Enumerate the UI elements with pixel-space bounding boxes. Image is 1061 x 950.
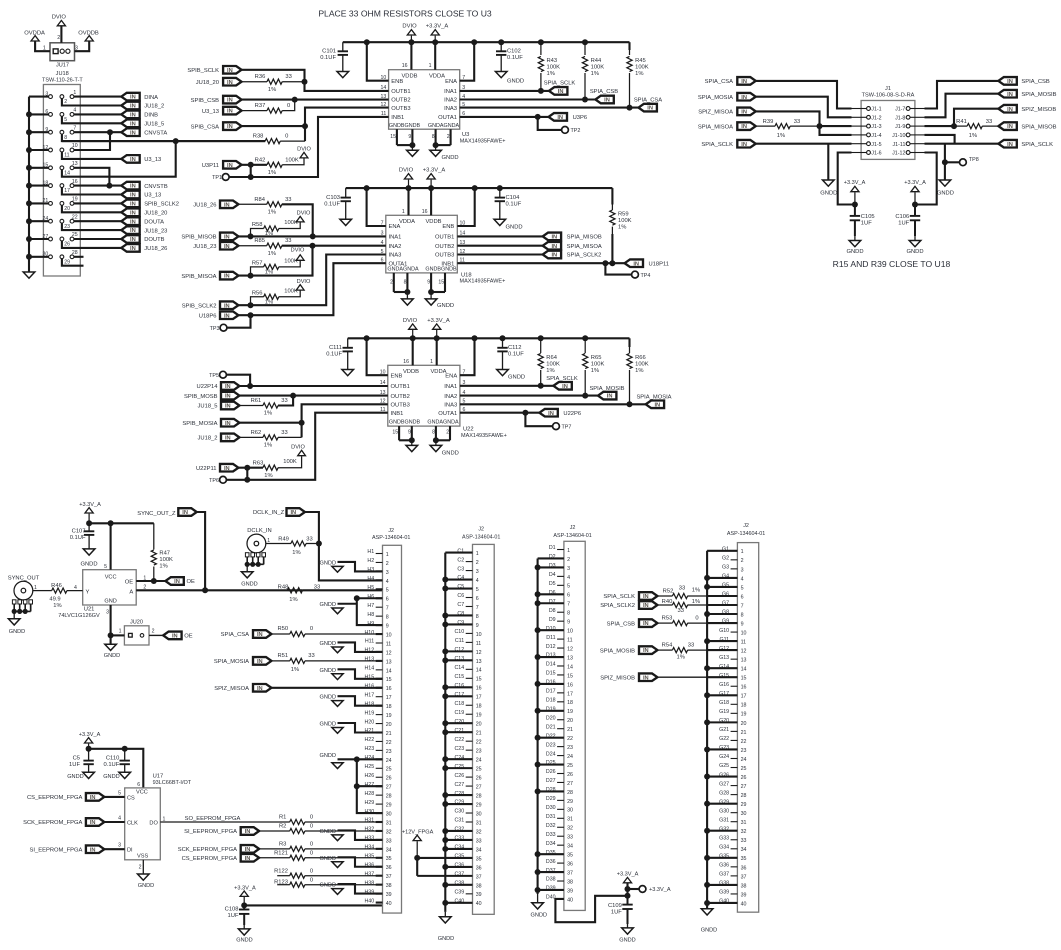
wire DI to U17 [104,843,124,850]
svg-text:2: 2 [741,558,744,564]
svg-text:G36: G36 [719,863,729,869]
svg-text:31: 31 [741,820,747,826]
svg-text:D17: D17 [546,689,556,695]
wire TP5 to U22P14 net [226,375,250,386]
svg-text:18: 18 [386,704,392,710]
power +3.3V_A above U18 [423,168,446,189]
svg-text:37: 37 [567,870,573,876]
svg-text:ASP-134604-01: ASP-134604-01 [372,535,410,541]
svg-text:0: 0 [310,626,313,632]
svg-text:IN: IN [741,142,747,148]
J2 H-column pin H25 [364,764,391,773]
J2 H-column pin H5 [367,585,388,594]
svg-text:DINB: DINB [144,113,158,119]
svg-text:0: 0 [310,815,313,821]
svg-text:10: 10 [72,143,78,149]
svg-text:DVIO: DVIO [291,248,305,254]
svg-text:INB1: INB1 [391,115,404,121]
resistor R40 33 [657,599,737,614]
svg-text:6: 6 [386,597,389,603]
svg-text:7: 7 [386,606,389,612]
svg-text:5: 5 [741,585,744,591]
svg-text:GNDD: GNDD [937,190,954,196]
svg-text:IN: IN [643,603,649,609]
svg-text:C112: C112 [508,345,521,351]
svg-text:IN: IN [225,394,231,400]
svg-text:IN: IN [130,246,136,252]
svg-text:OUTB3: OUTB3 [435,253,454,259]
flag JU18_5 [121,120,164,128]
resistor R65 100K [583,338,605,395]
svg-text:1: 1 [163,816,166,822]
J2 D-column pin D30 [546,805,573,814]
J2 C-column pin C13 [445,656,481,665]
ground U18 GNDA [402,299,414,305]
svg-text:G10: G10 [719,628,729,634]
J2 C-column pin C9 [445,620,478,629]
resistor R1 0 [279,815,383,825]
svg-text:74LVC1G126GV: 74LVC1G126GV [58,613,100,619]
J2 C-column pin C26 [454,773,481,782]
svg-text:0: 0 [310,877,313,883]
J2 H-column pin H29 [364,800,391,809]
svg-text:100K: 100K [283,459,297,465]
svg-text:SCK_EEPROM_FPGA: SCK_EEPROM_FPGA [23,820,82,826]
flag SPIB_SCLK2 input [182,301,239,309]
svg-text:1%: 1% [547,71,555,77]
J2 C-column pin C33 [445,836,481,845]
svg-text:0.1UF: 0.1UF [506,201,522,207]
svg-text:IN: IN [225,436,231,442]
flag SPIA_MOSIA into H13 [214,657,272,665]
J2 G-column pin G28 [719,790,746,799]
svg-text:12: 12 [386,650,392,656]
J2 G-column pin G2 [722,556,744,565]
flag SPIB_SCLK [187,66,241,74]
J2 D-column pin D23 [546,742,573,751]
svg-text:R61: R61 [251,398,262,404]
svg-text:1%: 1% [264,473,272,479]
flag CNVSTA [121,128,167,136]
svg-text:0: 0 [695,616,698,622]
svg-text:R50: R50 [277,626,288,632]
svg-text:SPIZ_MISOA: SPIZ_MISOA [698,110,733,116]
svg-text:IN: IN [643,594,649,600]
wire U3 VDDA pin 1 [429,42,436,69]
flag SPIB_SCLK2 [121,200,179,208]
svg-text:GNDD: GNDD [320,560,336,566]
svg-text:H10: H10 [364,630,374,636]
svg-text:U21: U21 [84,607,95,613]
svg-text:18: 18 [741,703,747,709]
svg-text:25: 25 [476,767,482,773]
U3 pin 4 INA2 label [444,94,465,104]
svg-text:+12V_FPGA: +12V_FPGA [402,829,434,835]
svg-text:R46: R46 [51,583,62,589]
svg-text:H17: H17 [364,692,374,698]
svg-text:JU17: JU17 [56,62,69,68]
svg-text:GNDD: GNDD [320,695,336,701]
resistor R39 33 [756,119,852,139]
svg-text:15: 15 [43,163,49,169]
svg-text:IN: IN [224,466,230,472]
svg-text:1%: 1% [265,231,273,237]
svg-text:32: 32 [741,829,747,835]
capacitor C111 [326,338,353,369]
J2 C-column pin C30 [454,809,481,818]
wire J1-5 ground drop [827,144,829,180]
flag DINB [121,111,158,119]
svg-text:IN: IN [1007,124,1013,130]
svg-text:1%: 1% [292,550,300,556]
J2 H-column pin H14 [364,666,391,675]
ground C110 [103,772,130,780]
J2 C-column pin C19 [454,710,481,719]
svg-text:R59: R59 [618,211,629,217]
svg-text:R39: R39 [763,119,774,125]
svg-text:IN: IN [551,244,557,250]
JU16 pin row 6/5/4 [29,108,76,123]
svg-text:IN: IN [227,68,233,74]
svg-text:INB1: INB1 [441,261,454,267]
J2 C-column pin C1 [445,548,478,557]
J2 G-column pin G14 [707,664,746,673]
svg-text:IN: IN [224,244,230,250]
svg-text:4: 4 [476,578,479,584]
svg-text:100K: 100K [547,64,561,70]
J2 C-column pin C39 [454,890,481,899]
svg-text:H11: H11 [365,639,374,645]
svg-text:DVIO: DVIO [297,147,311,153]
resistor R2 0 [259,824,382,834]
svg-text:+3.3V_A: +3.3V_A [423,168,446,174]
wire TP3 to U18P6 net [227,315,251,328]
svg-text:16: 16 [741,685,747,691]
svg-text:DO: DO [149,820,158,826]
svg-text:3: 3 [476,569,479,575]
J2 C-column pin C2 [457,557,478,566]
svg-text:D26: D26 [546,769,556,775]
J2 C-column pin C24 [445,755,481,764]
J2 H-column pin H28 [364,791,391,800]
wire to TP7 [525,413,552,427]
svg-text:IN: IN [224,274,230,280]
svg-text:G24: G24 [719,754,729,760]
svg-text:1%: 1% [591,368,599,374]
svg-text:OUTB2: OUTB2 [391,394,410,400]
svg-text:C7: C7 [457,602,464,608]
svg-text:OUTA1: OUTA1 [438,411,457,417]
svg-text:D8: D8 [549,608,556,614]
wire JU16 pin10 up to pin7 node [74,132,110,150]
svg-text:INB1: INB1 [391,411,404,417]
svg-text:G21: G21 [719,727,729,733]
svg-text:JU18_20: JU18_20 [196,80,219,86]
svg-text:SPIB_MISOB: SPIB_MISOB [181,235,216,241]
wire U18 OUTB3 to SPIA_SCLK2 [457,253,542,255]
flag SYNC_OUT_Z [137,508,196,517]
J2 G-column pin G25 [719,763,746,772]
flag JU18_26 [121,244,167,252]
svg-text:IN: IN [224,202,230,208]
svg-text:C109: C109 [608,903,622,909]
svg-text:G3: G3 [722,565,729,571]
power +3.3V_A at C109 [617,871,639,895]
svg-text:DVIO: DVIO [297,211,311,217]
U3 pin 5 INA3 label [444,102,465,112]
svg-text:33: 33 [281,398,287,404]
svg-text:37: 37 [386,874,392,880]
svg-text:1%: 1% [692,599,700,605]
svg-text:17: 17 [476,695,482,701]
U22 pin 3 INA1 label [444,380,465,390]
wire U17 DO to R1 net SO_EEPROM_FPGA [160,816,289,822]
J2 D-column pin D10 [538,626,573,635]
J1 pin J1-2 [852,115,882,121]
svg-text:20: 20 [64,206,70,212]
svg-text:1: 1 [741,549,744,555]
J2 H-column pin H3 [367,567,388,576]
svg-text:1%: 1% [591,71,599,77]
svg-text:ASP-134604-01: ASP-134604-01 [462,534,500,540]
ground C106 [906,241,923,256]
svg-text:IN: IN [130,219,136,225]
pin +3.3V_A terminal [628,886,671,894]
J2 G-column pin G8 [707,610,744,619]
svg-text:16: 16 [567,682,573,688]
svg-text:H34: H34 [364,845,374,851]
svg-text:1%: 1% [635,71,643,77]
svg-text:INA2: INA2 [444,394,457,400]
svg-text:35: 35 [567,853,573,859]
svg-text:J1-2: J1-2 [871,115,881,121]
flag CS_EEPROM_FPGA at R121 [182,854,260,862]
svg-text:2: 2 [447,134,450,140]
svg-text:IN: IN [90,820,96,826]
svg-text:SPIA_CSB: SPIA_CSB [607,621,635,627]
svg-text:13: 13 [72,161,78,167]
svg-text:R42: R42 [255,158,266,164]
flag CS_EEPROM_FPGA [27,793,104,801]
flag SPIA_CSB at U3 [590,89,618,103]
ground C101 [337,72,349,78]
wire U22 GNDA pins 8 2 [432,426,450,445]
svg-text:INA2: INA2 [444,98,457,104]
wire JU20 pin 1 [111,634,125,636]
svg-text:4: 4 [74,585,77,591]
U3 pin 7 ENA label [445,75,465,85]
J2 H-column pin H26 [364,773,391,782]
ground U3 GNDA [430,150,459,161]
resistor R64 100K [538,338,560,386]
svg-text:R3: R3 [279,842,286,848]
svg-text:J2: J2 [570,525,576,531]
svg-text:40: 40 [476,901,482,907]
capacitor C101 [320,42,348,71]
svg-text:GNDD: GNDD [820,190,837,196]
ground C102 [495,72,524,85]
svg-text:OUTB1: OUTB1 [435,235,454,241]
svg-text:8: 8 [386,615,389,621]
flag SPIA_MISOA into J1 [698,122,756,130]
J2 C-column pin C34 [445,845,481,854]
svg-text:IN: IN [633,261,639,267]
J2 D-column pin D15 [546,671,573,680]
svg-text:27: 27 [386,785,392,791]
J2 D-column pin D20 [546,715,573,724]
svg-text:5: 5 [386,588,389,594]
svg-text:3: 3 [741,567,744,573]
svg-text:2: 2 [386,561,389,567]
svg-text:SPIB_CSB: SPIB_CSB [191,98,219,104]
svg-text:SPIZ_MISOA: SPIZ_MISOA [214,686,249,692]
svg-text:ENA: ENA [445,79,457,85]
ground GNDD to H6 H9 [320,595,383,625]
wire U22 INA3 to SPIA_MOSIA [460,401,646,407]
ground GNDD to H18 [320,695,383,707]
ground U22 GNDB [406,445,418,451]
svg-text:CNVSTB: CNVSTB [144,184,168,190]
svg-text:26: 26 [386,776,392,782]
svg-text:SPIA_CSA: SPIA_CSA [221,632,249,638]
J2 C-column pin C5 [445,584,478,593]
svg-text:GND: GND [104,599,116,605]
J2 C-column pin C6 [457,593,478,602]
ground GNDD to H39 [320,883,383,895]
svg-text:D24: D24 [546,751,556,757]
svg-text:SPIA_MISOA: SPIA_MISOA [567,244,602,250]
resistor R42 100K pullup to DVIO [255,158,304,177]
svg-text:D1: D1 [549,545,556,551]
svg-text:9: 9 [427,279,430,285]
svg-text:4: 4 [118,816,121,822]
svg-text:VDDA: VDDA [399,219,415,225]
J2 D-column pin D9 [549,617,570,626]
flag SPIA_CSA at U3 [634,97,662,111]
svg-text:VDDB: VDDB [425,219,441,225]
flag SPIA_MOSIA into J1 [698,93,756,101]
U18 pin 4 INA2 label [381,240,402,250]
svg-text:1%: 1% [264,443,272,449]
svg-text:24: 24 [567,754,573,760]
U18 pin 14 OUTB1 label [435,231,465,241]
svg-text:1UF: 1UF [861,221,872,227]
svg-text:R65: R65 [591,355,602,361]
svg-text:U22: U22 [463,427,474,433]
J2 H-column pin H27 [364,782,391,791]
power +3.3V_A at C105 [844,180,866,204]
coax connector DCLK_IN [241,528,271,578]
svg-text:R63: R63 [253,460,264,466]
svg-text:OUTB1: OUTB1 [391,89,410,95]
wire U22P11 TP6 to U22 INB1 [226,413,387,483]
svg-text:TP2: TP2 [571,128,581,134]
svg-text:CLK: CLK [127,820,138,826]
svg-text:100K: 100K [284,220,298,226]
svg-text:IN: IN [227,109,233,115]
svg-text:15: 15 [392,430,398,436]
resistor R57 100K pullup to DVIO [251,258,301,275]
svg-text:R1: R1 [279,815,286,821]
ground GNDD to H21 [320,722,383,734]
U18 pin 12 OUTB3 label [435,249,465,259]
svg-text:SPIA_SCLK: SPIA_SCLK [1021,142,1053,148]
svg-text:D32: D32 [546,823,556,829]
J2 G-column pin G38 [707,881,746,890]
svg-text:40: 40 [567,897,573,903]
resistor R121 0 [259,851,382,861]
wire JU16 pin13 down to CNVSTB node [74,168,110,186]
flag U18P11 [625,259,669,267]
svg-text:D36: D36 [546,859,556,865]
svg-text:IN: IN [643,621,649,627]
flag JU18_20 [196,78,242,86]
svg-text:IN: IN [1007,142,1013,148]
flag CNVSTB [121,182,168,190]
svg-text:1: 1 [476,551,479,557]
svg-text:30: 30 [476,811,482,817]
J1 pin J1-4 [852,133,882,139]
ground U17 [138,874,155,889]
J2 H-column pin H24 [364,755,391,764]
svg-text:H22: H22 [364,737,374,743]
svg-text:4: 4 [73,108,76,114]
svg-text:H26: H26 [364,773,374,779]
J2 C-column pin C38 [445,881,481,890]
svg-text:15: 15 [567,673,573,679]
svg-text:6: 6 [45,109,48,115]
svg-text:MAX14935FAWE+: MAX14935FAWE+ [461,433,507,439]
wire U3 INA2 to SPIA_CSB [460,97,596,103]
svg-text:IN: IN [245,847,251,853]
J2 H-column pin H9 [367,621,388,630]
svg-text:+3.3V_A: +3.3V_A [427,318,450,324]
J2 G-column pin G4 [707,574,744,583]
U22 pin 13 OUTB2 label [380,390,410,400]
wire J1-7 to SPIA_CSB [925,81,999,109]
J2 C-column pin C21 [445,728,481,737]
svg-text:33: 33 [476,838,482,844]
ground G-column bus [701,909,717,934]
svg-text:100K: 100K [285,158,299,164]
flag JU18_23 input [193,242,238,250]
wire JU16 pin4 to DINB [74,113,121,115]
capacitor C5 1UF [69,749,94,773]
J2 C-column pin C23 [454,746,481,755]
flag SPIA_SCLK from J1 [998,140,1053,148]
svg-text:2: 2 [476,560,479,566]
wire U18 VDDB pin 16 [422,188,431,215]
svg-text:C11: C11 [455,638,464,644]
svg-text:D12: D12 [546,644,556,650]
svg-text:+3.3V_A: +3.3V_A [904,180,926,186]
wire JU16 pin29 stub [62,259,84,266]
J2 D-column pin D5 [549,581,570,590]
wire JU16 pin2 [62,99,121,106]
svg-text:VCC: VCC [136,789,148,795]
J1 pin J1-9 [895,124,924,130]
flag DOUTA [121,217,164,225]
svg-text:C106: C106 [895,214,909,220]
J1 pin J1-7 [895,107,924,113]
svg-text:H38: H38 [364,880,374,886]
svg-text:1UF: 1UF [611,910,622,916]
svg-text:GNDD: GNDD [320,753,336,759]
svg-text:C19: C19 [454,710,464,716]
svg-text:IN: IN [130,228,136,234]
flag JU18_26 input [193,201,238,209]
svg-text:36: 36 [476,865,482,871]
